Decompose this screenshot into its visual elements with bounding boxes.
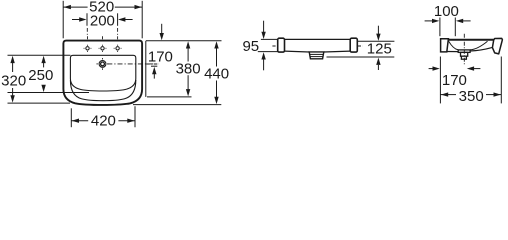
basin underside right (470, 47, 492, 51)
svg-text:380: 380 (176, 60, 201, 77)
drain hole (plan view) (99, 61, 106, 68)
dimension 125 bottom arrow (376, 58, 380, 65)
wire centreline dash x87.3 (86, 28, 88, 32)
wire extension line 520 right (141, 1, 143, 39)
wire extension vertical x145.8 (145, 41, 147, 97)
basin bottom edge left (285, 50, 310, 53)
wire drain centreline to right (107, 63, 158, 65)
basin underside left (447, 51, 458, 53)
svg-text:170: 170 (148, 48, 173, 65)
bowl front lower curve (70, 80, 135, 101)
wire ext line right long (500, 57, 502, 104)
dimension 95 top arrow (263, 21, 265, 33)
wire 95 bottom ext line (258, 51, 278, 53)
dimension 440 arrows (214, 41, 218, 48)
dimension 100 arrows (425, 20, 433, 22)
dimension 380 arrows (186, 41, 190, 48)
wire 170 bottom tick (151, 65, 157, 67)
wire centre tick hole x102.5 (102, 36, 104, 39)
wire centreline right stub (358, 45, 363, 47)
dimension 95 bottom arrow (261, 52, 265, 59)
svg-text:95: 95 (242, 38, 259, 55)
svg-text:170: 170 (442, 72, 467, 89)
basin outer outline (plan view) (63, 41, 142, 105)
svg-text:125: 125 (367, 41, 392, 58)
faucet hole 2 (101, 47, 104, 50)
wire drain centreline stub right of basin (146, 63, 158, 65)
basin top surface (side view) (441, 39, 495, 41)
basin bottom edge right (324, 50, 350, 53)
wire centre tick hole x117.6 (117, 36, 119, 39)
wire ref line 250 bottom (8, 92, 90, 94)
dimension 250 arrows (41, 56, 45, 63)
dimension 320 arrows (10, 56, 14, 63)
wire tick 200 left (86, 13, 88, 25)
svg-text:200: 200 (90, 12, 115, 29)
wire 100 ext right (454, 18, 456, 37)
wire centreline left stub (272, 45, 277, 47)
svg-text:250: 250 (28, 67, 53, 84)
basin top edge (front view) (281, 38, 356, 40)
wire centre tick hole x87.5 (87, 36, 89, 39)
wire centreline dash x117.6 (117, 28, 119, 32)
wire ref line top-right (y40.75) (146, 40, 222, 42)
wire ref line top-left (y55) (8, 54, 71, 56)
dimension 420 line+arrows (71, 120, 88, 122)
dimension 170 side arrows (429, 68, 434, 70)
dimension 170 top arrow (161, 24, 163, 34)
wire extension line 520 left (62, 1, 64, 39)
dimension 520 line+arrows (63, 6, 87, 8)
front apron (side view) (492, 38, 502, 54)
wire 95 top ext line (261, 38, 278, 40)
dimension 170 bottom arrow (152, 67, 156, 74)
svg-text:440: 440 (204, 66, 229, 83)
wire ext line left long (439, 57, 441, 104)
drain trap (front view) (309, 52, 324, 59)
svg-text:350: 350 (459, 88, 484, 105)
right rim cap (350, 38, 357, 52)
wire ref line 440 bottom (133, 104, 221, 106)
faucet hole 1 (86, 47, 89, 50)
wall bracket (side view) (441, 39, 449, 52)
wire 125 top ext line (358, 40, 395, 42)
dimension 350 line+arrows (440, 94, 456, 96)
wire extension line 420 left (70, 108, 72, 127)
svg-text:320: 320 (1, 72, 26, 89)
wire 125 bottom ext line (327, 56, 395, 58)
wire ref line 320 bottom (8, 102, 71, 104)
wire extension line 420 right (134, 106, 136, 127)
basin inner rim (plan view) (70, 55, 135, 91)
wire 100 ext left (439, 18, 441, 37)
bowl inner profile right (470, 41, 487, 50)
drain flange (side view) (458, 50, 470, 53)
wire ref line 380 bottom (147, 96, 192, 98)
left rim cap (278, 38, 285, 52)
svg-text:420: 420 (91, 113, 116, 128)
bowl inner profile left (449, 41, 459, 50)
drain body (side view) (461, 52, 468, 56)
wire tick 200 right (117, 13, 119, 25)
svg-text:100: 100 (434, 3, 459, 20)
drain tail (side view) (461, 56, 466, 59)
dimension 200 arrows (72, 19, 80, 21)
wire drain centreline vertical (463, 34, 465, 66)
dimension 125 top arrow (377, 26, 379, 35)
faucet hole 3 (116, 47, 119, 50)
